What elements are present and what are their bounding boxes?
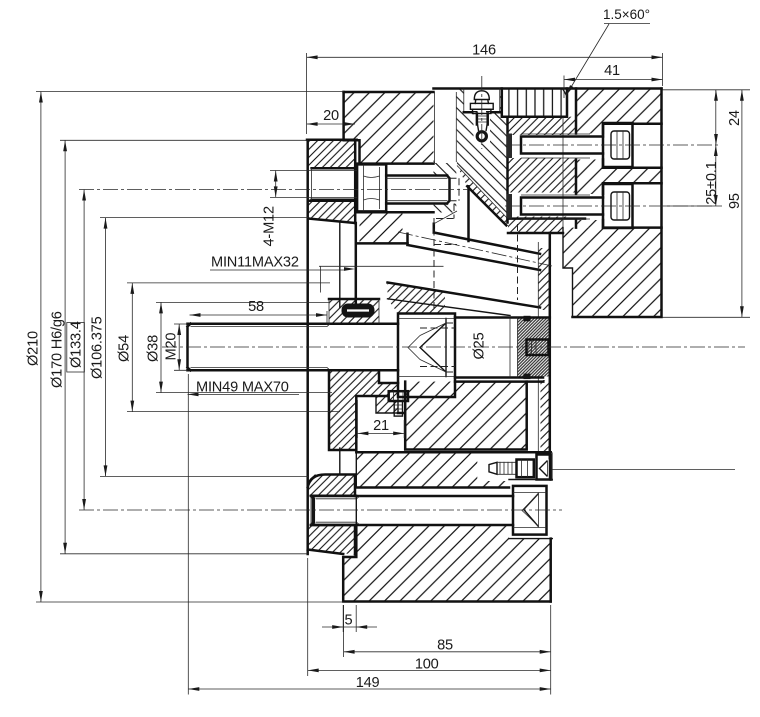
svg-text:Ø106.375: Ø106.375 [90,316,106,379]
head pocket 1 in right block [603,124,662,168]
svg-text:41: 41 [604,63,620,79]
white pockets and holes [312,89,662,539]
body right face [549,455,552,602]
flange lower wedge 1 [308,475,355,496]
centerlines [79,76,745,510]
M12 bolt shank and thread [386,176,449,204]
hub outline below shaft [329,370,398,450]
mid lower block [405,382,527,450]
hex coupler nut [398,314,455,398]
svg-text:24: 24 [727,110,743,126]
mid block outline [398,382,527,450]
svg-text:21: 21 [373,418,389,434]
bottom bolt head pocket [509,480,552,539]
dim 58 [190,299,328,325]
plug retaining ring marks [524,316,531,322]
dim 21 [357,400,404,438]
svg-text:Ø25: Ø25 [472,332,488,359]
pull sleeve flange rows [508,117,576,135]
seal ring (black) [342,304,375,318]
dim phi133.4 boxed [67,190,86,511]
dim 41 [564,63,663,98]
dim 149 [188,374,550,695]
cap screw 2 [521,184,633,228]
shank hole 1 through block left lip [570,134,603,160]
leader 1.5x60 [566,7,650,96]
wedge bar inclined axis [398,232,552,266]
dim phi210 [26,92,344,603]
dim phi106.375 [90,218,309,477]
svg-text:20: 20 [323,108,339,124]
body clamp ring (big top block) [344,92,434,164]
cap screw 1 [521,123,633,167]
hidden jaw bore line [434,218,457,308]
svg-text:Ø54: Ø54 [117,335,133,362]
drawbar shaft [188,324,399,371]
svg-text:Ø133.4: Ø133.4 [69,321,85,368]
jaw slot edge [467,186,470,241]
seal gland strip [329,298,379,301]
dim phi54 [117,283,341,412]
dim 20 [307,108,355,126]
dim phi38 [146,302,333,392]
body top edge [434,87,662,90]
svg-text:MIN11MAX32: MIN11MAX32 [211,255,299,271]
svg-text:4-M12: 4-M12 [262,206,278,246]
clamp ring right face / channel [435,92,457,163]
head pocket 2 in right block [603,183,662,227]
svg-text:58: 58 [248,299,264,315]
hub below shaft [329,370,398,450]
svg-text:146: 146 [472,43,496,59]
head pocket 1 edges [603,124,662,168]
bottom bolt head [513,486,547,535]
M12 bolt head [357,164,386,211]
M12 bore in boss [312,168,357,199]
dim 146 [307,43,663,135]
hidden plug edge [517,224,519,300]
pull sleeve bottom [508,219,586,233]
bottom body block [343,525,551,602]
M12 head pocket [356,164,433,213]
block step strip [508,219,563,233]
cap screw 1 axis [505,144,721,146]
flange inner bore line [339,223,341,308]
flange lower wedge outlines [308,475,356,555]
chamber floor [455,380,543,383]
bolt pocket edges [509,480,552,539]
svg-text:149: 149 [356,675,380,691]
bottom bolt shank [311,496,513,525]
svg-text:Ø170 H6/g6: Ø170 H6/g6 [50,311,66,388]
flange boss (hub, 20mm) [308,140,355,169]
hatched masses [308,89,662,602]
grease fitting [470,91,493,141]
svg-text:25±0.1: 25±0.1 [704,161,720,204]
M12 bore counterbore face [311,168,313,199]
grease fitting axis [481,76,483,149]
bleed screw pocket [477,452,552,481]
grease fitting pocket [464,89,500,113]
M12 hidden thread in wall [436,178,459,218]
right block outline [573,89,662,318]
clearance channel in body [435,92,457,163]
M12 bolt axis (also phi133.4 ext) [79,189,468,191]
screw hole 1 in sleeve [508,135,576,158]
clamp ring lower boundary [357,242,408,245]
right block left lip edges [562,117,564,228]
cone diagonal upper [457,166,508,220]
cap screw 2 axis [505,205,715,207]
right block [576,89,662,228]
dim 4-M12 [262,171,358,247]
head pocket 2 edges [603,183,662,227]
svg-text:100: 100 [415,657,439,673]
dim phi170 H6/g6 [50,140,308,554]
lower clamp plate edges [356,452,550,487]
seal gland strip above shaft [329,299,379,324]
M12 pocket edges [356,164,433,213]
tube hatched slivers [538,248,548,310]
bleed screw [489,455,550,480]
cone diagonal lower [467,186,506,225]
main axis [162,346,745,348]
flange right face [354,140,357,310]
washer lines [510,318,518,378]
bore 25 edges [455,318,550,378]
lower clamp plate row [356,452,550,487]
hub retaining screw [389,391,408,416]
svg-text:Ø210: Ø210 [26,331,42,366]
dim 5 [322,605,377,632]
chamfer 1.5x60 on gland nut [563,89,568,97]
dim 25 +-0.1 [704,145,720,206]
dim M20 [164,324,188,370]
dark plug block [518,319,549,377]
clamp ring top edge [344,91,434,94]
svg-text:MIN49 MAX70: MIN49 MAX70 [196,380,289,396]
wedge strip below bar [388,283,446,314]
screw thread engagement dark zones [507,134,513,159]
body bottom [343,525,551,602]
flange boss outline [307,140,357,223]
dark plug set screw [527,340,549,356]
body front wall with cone ("\" hatch) [456,89,507,220]
flange lower wedge 2 [308,525,355,555]
flange wedge below M12 bore [308,201,355,223]
outlines and components [188,89,662,602]
svg-text:1.5×60°: 1.5×60° [603,7,650,22]
dim 24 [663,90,751,206]
bottom bolt axis (also phi133.4 ext) [79,509,562,511]
svg-text:M20: M20 [164,333,180,361]
svg-text:5: 5 [345,613,353,629]
tube walls [537,242,539,452]
gland nut (vertical hatch) [502,89,567,117]
wedge bar [388,224,541,308]
clamp ring left face [344,92,360,164]
grease fitting hole [474,112,491,144]
grease fitting pocket edges [464,89,500,113]
gland nut bottom and right [502,89,567,117]
note MIN49 MAX70 [188,380,300,397]
svg-text:95: 95 [727,193,743,209]
sleeve cone patch [457,166,508,226]
note MIN11MAX32 [210,255,444,293]
svg-text:85: 85 [437,638,453,654]
dim 95 [663,90,751,317]
svg-text:Ø38: Ø38 [146,335,162,362]
shank hole 2 through block left lip [570,194,603,220]
bleed screw axis extended [552,469,735,471]
dim 85 [344,605,551,695]
dim 100 [308,558,551,676]
flange left face [306,140,309,554]
screw hole 2 in sleeve [508,193,576,217]
bleed pocket right wall [551,452,553,481]
pull sleeve left face [506,117,509,223]
